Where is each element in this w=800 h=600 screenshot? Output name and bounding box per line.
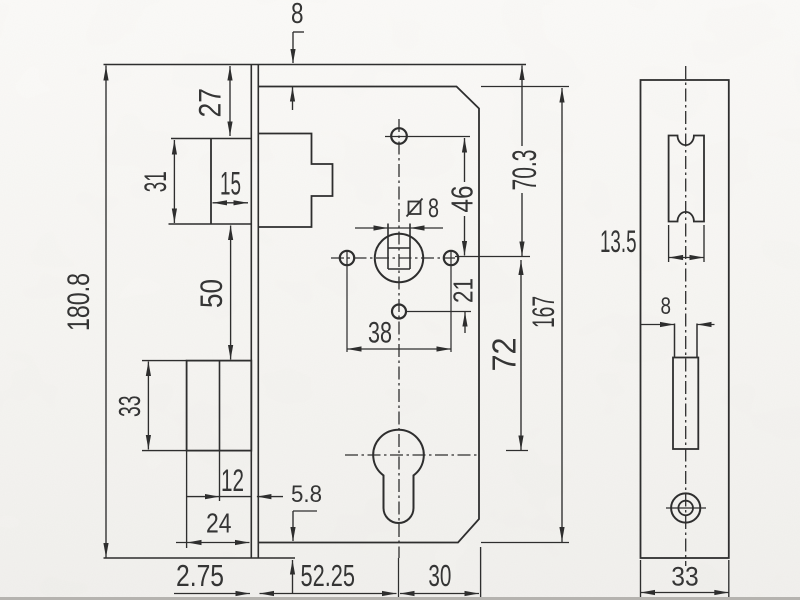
lower lock-stile block: [187, 361, 252, 451]
scanner edge shadow at bottom: [0, 597, 800, 600]
dim text 70.3: [506, 150, 544, 191]
dim text 8 slot: [661, 293, 672, 320]
svg-text:2.75: 2.75: [176, 558, 224, 593]
dim 13.5 double arrow: [669, 255, 704, 260]
svg-text:31: 31: [137, 171, 173, 192]
dim 33 line with arrows: [146, 362, 151, 450]
body top edge extension line (for 167 dim): [481, 86, 569, 88]
screw hole inner circle: [678, 501, 693, 516]
cylinder centerline extension right (for 72 dim): [506, 450, 528, 452]
dim 38 line with arrows: [347, 346, 451, 351]
hole below follower: [392, 305, 406, 319]
dim text 180.8: [60, 273, 96, 331]
deadbolt slot opening lines: [675, 324, 698, 358]
svg-text:24: 24: [206, 508, 232, 539]
vertical centerline through follower and cylinder: [398, 119, 400, 558]
follower square spindle hole 8mm: [388, 224, 410, 270]
dim 52.25 line with arrows: [260, 591, 397, 596]
faceplate top edge with extension lines: [104, 64, 527, 66]
dim text 33 left view: [113, 396, 147, 418]
vertical centerline extension to bottom dimension line: [398, 558, 400, 597]
svg-text:8: 8: [661, 293, 672, 320]
screw hole outer circle: [671, 493, 700, 522]
dim text 15: [220, 166, 241, 202]
bottom hole extension line right: [406, 311, 471, 313]
lock body outline (top edge, chamfered right edge, bottom edge): [258, 87, 479, 543]
svg-text:46: 46: [446, 186, 480, 213]
faceplate front view outline: [641, 80, 729, 558]
left hole vertical extension line: [346, 250, 348, 352]
dim 24 line with arrows: [176, 540, 250, 545]
faceplate bottom edge with extension line: [104, 557, 296, 559]
dim text 21: [448, 278, 479, 303]
dim 27 line with arrows: [227, 66, 232, 136]
svg-text:167: 167: [525, 296, 561, 328]
follower circle: [375, 234, 423, 282]
dim 50 line with arrows: [228, 226, 233, 360]
screw hole horizontal tick: [666, 507, 706, 509]
latch bolt head (stepped, right of faceplate): [258, 134, 332, 228]
dim text 167: [525, 296, 561, 328]
svg-text:21: 21: [448, 278, 479, 303]
dim text 30: [428, 558, 451, 593]
dim text 72: [486, 338, 523, 372]
svg-text:70.3: 70.3: [506, 150, 544, 191]
dim text 27: [192, 88, 228, 118]
svg-text:8: 8: [428, 193, 439, 223]
dim 167 line with arrows: [559, 88, 564, 542]
dim text 33 right view: [671, 561, 698, 591]
svg-text:8: 8: [291, 0, 304, 30]
hole above follower: [391, 128, 407, 144]
svg-text:38: 38: [368, 317, 392, 350]
dim 2.75 line and arrow: [174, 591, 250, 596]
dim text 50: [193, 279, 229, 308]
body right edge extension down (for 30 dim): [480, 547, 482, 597]
fixing hole left of follower: [340, 251, 354, 265]
svg-text:12: 12: [221, 462, 244, 498]
lower block left edge extension down (for 24 dim): [186, 451, 188, 548]
dim 33 right view extensions: [641, 560, 729, 597]
dim text 38: [368, 317, 392, 350]
horizontal centerline through cylinder: [345, 454, 478, 456]
faceplate edge strip (left view): [251, 64, 258, 558]
svg-text:15: 15: [220, 166, 241, 202]
dim text 8 top: [291, 0, 304, 30]
dim 72 line with arrows: [518, 260, 523, 451]
dim 180.8 line with arrows: [103, 66, 108, 559]
svg-text:50: 50: [193, 279, 229, 308]
dim 13.5 extension lines: [669, 225, 704, 262]
latch bolt block (left of faceplate): [169, 139, 252, 225]
dim 5.8 leader and vertical arrows: [290, 511, 317, 594]
dim 21 arrow and text: [462, 312, 467, 333]
dim text 52.25: [301, 558, 356, 593]
dim text 24: [206, 508, 232, 539]
euro profile cylinder hole: [373, 430, 424, 523]
dim text 5.8: [291, 481, 322, 508]
svg-text:30: 30: [428, 558, 451, 593]
dim text 12: [221, 462, 244, 498]
svg-text:13.5: 13.5: [600, 223, 637, 259]
dim 12 line with arrow: [187, 494, 251, 499]
dim 46 line with arrows: [462, 138, 467, 256]
dim 30 line with arrows: [400, 591, 479, 596]
text 8 of square-8 label: [428, 193, 439, 223]
svg-text:33: 33: [671, 561, 698, 591]
lower block bottom edge extension: [142, 450, 187, 452]
dim text 46: [446, 186, 480, 213]
dim 15 double arrow: [213, 200, 249, 205]
svg-text:52.25: 52.25: [301, 558, 356, 593]
dim 5.8 horizontal arrow at faceplate: [257, 494, 283, 499]
square-8 dimension arrows: [355, 225, 443, 230]
dim 31 line with arrows: [172, 140, 177, 223]
svg-text:72: 72: [486, 338, 523, 372]
dim 33 right view line with arrows: [641, 590, 729, 595]
dim text 2.75: [176, 558, 224, 593]
deadbolt body: [673, 358, 698, 450]
svg-text:27: 27: [192, 88, 228, 118]
horizontal centerline through follower: [331, 257, 455, 259]
svg-text:180.8: 180.8: [60, 273, 96, 331]
lower block top edge extension: [142, 360, 187, 362]
top hole horizontal line: [385, 136, 470, 138]
dim 8 slot arrows: [641, 322, 715, 327]
dim text 13.5: [600, 223, 637, 259]
svg-text:33: 33: [113, 396, 147, 418]
follower centerline extension right (for 46 70.3 dims): [455, 256, 530, 258]
lower block inner vertical line: [219, 361, 221, 451]
fixing hole right of follower: [444, 251, 458, 265]
dim text 31: [137, 171, 173, 192]
body bottom edge extension line (for 167 dim): [481, 542, 569, 544]
square symbol of square-8 label: [407, 199, 423, 217]
right hole vertical extension line: [450, 250, 452, 352]
latch cutout with half-moon notches: [669, 136, 704, 222]
faceplate vertical centerline: [685, 66, 687, 566]
dim 8 top leader and arrows: [290, 32, 304, 110]
svg-text:5.8: 5.8: [291, 481, 322, 508]
lower block mid line extension down (for 12 dim): [219, 451, 221, 501]
dim 70.3 line with arrows: [519, 66, 524, 257]
